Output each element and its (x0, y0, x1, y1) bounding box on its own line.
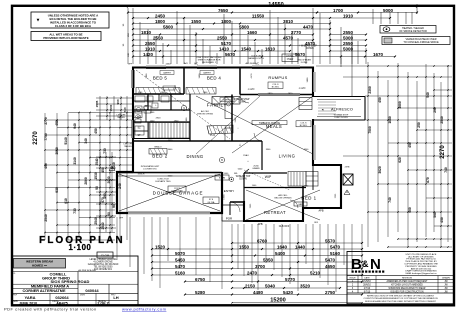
svg-text:730: 730 (73, 208, 77, 214)
svg-text:5210: 5210 (310, 270, 321, 275)
svg-text:ENTRY: ENTRY (224, 189, 234, 193)
svg-text:REPRODUCTION OF THE WHOLE OR P: REPRODUCTION OF THE WHOLE OR PART OF THE… (367, 294, 435, 297)
svg-text:2450: 2450 (155, 13, 166, 18)
svg-text:90: 90 (112, 204, 116, 208)
svg-text:3810: 3810 (283, 19, 294, 24)
svg-text:FAX 08 9282 001: FAX 08 9282 001 (94, 268, 112, 271)
svg-text:5470: 5470 (175, 264, 186, 269)
svg-text:450: 450 (378, 97, 382, 103)
svg-text:KIT: KIT (210, 133, 216, 137)
svg-text:2470: 2470 (247, 270, 258, 275)
svg-text:SWICH: SWICH (138, 174, 145, 176)
svg-text:1440: 1440 (295, 244, 306, 249)
svg-text:610: 610 (64, 198, 68, 204)
svg-text:AMENDED AS PER CLIENT REQUEST: AMENDED AS PER CLIENT REQUEST (387, 280, 429, 283)
svg-text:560: 560 (433, 212, 437, 218)
svg-text:EMAIL bndesigns@bigpond.net.a: EMAIL bndesigns@bigpond.net.au (406, 272, 437, 275)
svg-text:2460: 2460 (166, 64, 172, 66)
svg-text:1670: 1670 (373, 52, 384, 57)
svg-text:2 OF 7: 2 OF 7 (97, 301, 108, 305)
svg-text:⤒ W BEAM STEP: ⤒ W BEAM STEP (299, 45, 317, 48)
svg-text:N: N (370, 256, 381, 273)
svg-text:BED 2: BED 2 (152, 154, 168, 159)
svg-text:2550: 2550 (153, 35, 164, 40)
svg-text:7650: 7650 (218, 8, 229, 13)
svg-text:CORNER ALTERNATME: CORNER ALTERNATME (23, 289, 66, 293)
svg-text:⊙ A/O: ⊙ A/O (248, 88, 255, 91)
svg-text:DATE: DATE (13, 300, 19, 303)
svg-text:APB: APB (257, 223, 262, 226)
svg-text:DOWN: DOWN (301, 62, 308, 64)
svg-text:600: 600 (408, 207, 412, 213)
svg-text:PROVIDED WITH FLOOR WASTE: PROVIDED WITH FLOOR WASTE (43, 36, 88, 40)
svg-text:GBD: GBD (298, 204, 303, 206)
svg-text:SZ: SZ (137, 127, 141, 130)
svg-text:www.pdffactory.com: www.pdffactory.com (122, 306, 167, 311)
svg-text:5420: 5420 (283, 290, 294, 295)
svg-text:4480: 4480 (253, 290, 264, 295)
svg-text:032664: 032664 (55, 295, 69, 300)
svg-text:BRACO: BRACO (154, 146, 162, 149)
svg-text:A/C: A/C (194, 63, 198, 66)
svg-text:11550: 11550 (252, 13, 265, 18)
svg-text:W BEAM TOP: W BEAM TOP (236, 175, 251, 178)
svg-text:BELOW OPENGS: BELOW OPENGS (275, 198, 293, 200)
svg-text:2770: 2770 (291, 30, 302, 35)
svg-text:1410: 1410 (219, 46, 230, 51)
svg-text:COL S: COL S (272, 84, 279, 86)
svg-text:2540: 2540 (94, 217, 98, 225)
svg-text:2770: 2770 (44, 117, 48, 125)
svg-text:450: 450 (101, 167, 105, 173)
svg-text:2540: 2540 (440, 116, 444, 124)
svg-text:5450: 5450 (175, 257, 186, 262)
svg-text:1910: 1910 (145, 46, 156, 51)
svg-text:2540: 2540 (101, 222, 105, 229)
svg-text:CARPET: CARPET (203, 72, 212, 75)
svg-text:90: 90 (107, 212, 111, 216)
svg-text:◄: ◄ (321, 108, 324, 112)
svg-text:8.5MM: 8.5MM (219, 178, 226, 180)
svg-text:DOWN TIES: DOWN TIES (171, 191, 183, 193)
svg-text:1540: 1540 (241, 46, 252, 51)
svg-text:450: 450 (408, 142, 412, 148)
svg-text:5400: 5400 (275, 251, 286, 256)
svg-text:740: 740 (444, 167, 448, 173)
svg-text:→ W BEAM STEP: → W BEAM STEP (231, 98, 250, 101)
svg-text:21/6/10: 21/6/10 (363, 281, 371, 283)
svg-text:OFF: OFF (119, 218, 124, 220)
svg-text:7500: 7500 (368, 126, 372, 134)
svg-text:OFF: OFF (128, 64, 133, 66)
svg-text:YARA: YARA (25, 295, 36, 300)
svg-text:DATE: DATE (364, 277, 370, 280)
svg-text:5280: 5280 (195, 290, 206, 295)
svg-text:1810: 1810 (141, 30, 152, 35)
svg-text:5570: 5570 (295, 52, 306, 57)
svg-text:040044: 040044 (85, 288, 99, 293)
svg-text:450: 450 (94, 128, 98, 134)
svg-text:TABLES: TABLES (117, 116, 125, 119)
svg-text:OVER: OVER (287, 59, 294, 61)
svg-text:1550: 1550 (239, 244, 250, 249)
svg-text:MODULES AND MUST NOT BE USED W: MODULES AND MUST NOT BE USED WITHOUT WRI… (365, 300, 436, 303)
svg-text:A/C: A/C (255, 63, 259, 66)
svg-text:BED 5: BED 5 (153, 76, 167, 81)
svg-text:1500: 1500 (109, 104, 113, 111)
svg-text:237B: 237B (345, 167, 350, 169)
svg-text:450: 450 (55, 120, 59, 126)
svg-text:FAMILY: FAMILY (207, 103, 228, 108)
svg-text:ALFRESCO: ALFRESCO (331, 108, 353, 112)
svg-text:2150: 2150 (245, 283, 256, 288)
svg-text:7750: 7750 (44, 133, 48, 141)
svg-text:LIVING: LIVING (279, 154, 296, 159)
svg-text:INTEGRATED HWT: INTEGRATED HWT (141, 165, 160, 168)
svg-text:ISSUED FOR CONSTRUCTION: ISSUED FOR CONSTRUCTION (390, 291, 424, 293)
svg-text:CLASS 2 OF 3 OF BE BCA: CLASS 2 OF 3 OF BE BCA (55, 24, 92, 28)
svg-text:2270: 2270 (33, 131, 39, 145)
svg-text:A/O DUB: A/O DUB (246, 62, 256, 65)
svg-text:5770: 5770 (285, 277, 296, 282)
svg-text:3600: 3600 (398, 101, 402, 109)
svg-text:DRAWN: DRAWN (442, 277, 450, 280)
svg-text:MEMIFIELD FARM A: MEMIFIELD FARM A (31, 284, 69, 289)
svg-text:930: 930 (55, 187, 59, 193)
svg-text:BC BOL: BC BOL (300, 125, 308, 127)
svg-text:3700: 3700 (255, 264, 266, 269)
svg-text:1520: 1520 (155, 244, 166, 249)
svg-text:2900: 2900 (156, 118, 162, 120)
svg-text:2/7/10: 2/7/10 (364, 288, 371, 290)
svg-text:290: 290 (433, 107, 437, 113)
svg-text:2540: 2540 (95, 158, 99, 165)
svg-text:3050: 3050 (55, 147, 59, 155)
svg-text:1800: 1800 (155, 19, 166, 24)
svg-text:870: 870 (426, 177, 430, 183)
svg-text:2000: 2000 (84, 177, 88, 185)
svg-text:5040: 5040 (265, 283, 276, 288)
svg-text:GRAND: GRAND (252, 167, 260, 170)
svg-text:60 DIA: 60 DIA (208, 201, 215, 204)
svg-text:2000: 2000 (107, 176, 111, 183)
svg-text:BC BOL: BC BOL (272, 87, 280, 89)
svg-text:RETREAT: RETREAT (264, 210, 286, 215)
svg-text:240: 240 (118, 183, 122, 189)
svg-text:TABLES: TABLES (124, 145, 132, 148)
svg-text:CONSTITUTES AN INFRINGEMENT OF: CONSTITUTES AN INFRINGEMENT OF COPYRIGHT… (363, 297, 438, 300)
svg-text:5800: 5800 (163, 24, 174, 29)
svg-text:1660: 1660 (247, 30, 258, 35)
svg-text:POR: POR (226, 217, 232, 221)
svg-text:9/7/10: 9/7/10 (364, 291, 371, 293)
svg-text:4650: 4650 (325, 264, 336, 269)
svg-text:TO CONCEAL FRIDGE SPACE: TO CONCEAL FRIDGE SPACE (403, 41, 439, 44)
svg-text:ELEVATN TIES: ELEVATN TIES (155, 180, 171, 183)
svg-text:1505: 1505 (95, 100, 99, 107)
svg-text:ST: ST (137, 134, 141, 137)
svg-text:490: 490 (44, 163, 48, 169)
svg-text:5570: 5570 (325, 238, 336, 243)
svg-text:REVISION: REVISION (402, 278, 412, 280)
svg-text:730: 730 (103, 148, 107, 154)
svg-text:▾: ▾ (37, 18, 40, 24)
svg-text:OF SMOKE DETECTOR: OF SMOKE DETECTOR (399, 30, 427, 33)
svg-text:RUMPUS: RUMPUS (268, 75, 287, 80)
svg-text:HOMES ▪▪▪: HOMES ▪▪▪ (32, 263, 47, 267)
svg-text:2540: 2540 (44, 214, 48, 222)
svg-text:4470: 4470 (303, 24, 314, 29)
svg-text:1800: 1800 (221, 19, 232, 24)
svg-text:540: 540 (426, 92, 430, 98)
svg-text:LOUVER SYD: LOUVER SYD (143, 169, 157, 171)
svg-text:APB: APB (318, 210, 323, 213)
svg-text:PDF created with pdfFactory tr: PDF created with pdfFactory trial versio… (4, 306, 97, 311)
svg-text:1640: 1640 (277, 244, 288, 249)
svg-text:2360: 2360 (368, 86, 372, 94)
svg-text:DWG: DWG (80, 295, 85, 297)
svg-text:3620: 3620 (378, 166, 382, 174)
svg-text:LINTEL: LINTEL (286, 56, 295, 58)
svg-text:620: 620 (398, 157, 402, 163)
svg-text:BED 1: BED 1 (301, 196, 316, 201)
svg-text:2750: 2750 (325, 290, 336, 295)
svg-text:3520: 3520 (300, 283, 311, 288)
svg-text:28/6/10: 28/6/10 (363, 285, 371, 287)
svg-text:90: 90 (95, 186, 99, 190)
svg-text:AO CEO: AO CEO (201, 110, 209, 113)
svg-text:JUNE 2010: JUNE 2010 (19, 301, 37, 305)
svg-text:5800: 5800 (239, 24, 250, 29)
svg-text:LH: LH (113, 295, 118, 300)
svg-text:740: 740 (388, 197, 392, 203)
svg-text:5170: 5170 (221, 41, 232, 46)
svg-text:6750: 6750 (195, 277, 206, 282)
svg-text:DVAO: DVAO (243, 154, 249, 157)
svg-text:ISSUE: ISSUE (349, 278, 356, 280)
svg-text:900: 900 (116, 99, 120, 104)
svg-text:5470: 5470 (330, 244, 341, 249)
svg-text:250: 250 (417, 122, 421, 128)
svg-text:⊙ A/O: ⊙ A/O (299, 87, 306, 90)
svg-text:DOWN: DOWN (238, 102, 246, 104)
svg-text:5070: 5070 (175, 251, 186, 256)
svg-text:340: 340 (84, 138, 88, 144)
svg-text:DOWN: DOWN (306, 48, 314, 50)
svg-text:740: 740 (123, 107, 127, 112)
svg-text:1530: 1530 (94, 172, 98, 180)
svg-text:THROW OPENG: THROW OPENG (197, 114, 213, 116)
svg-text:WIP: WIP (265, 175, 272, 179)
svg-text:OFF: OFF (314, 222, 319, 224)
svg-text:DINING: DINING (186, 154, 203, 159)
svg-text:GALLERIA HILL ON WA 6010: GALLERIA HILL ON WA 6010 (88, 263, 119, 266)
svg-text:WINDOWS RELOCATED TO REAR: WINDOWS RELOCATED TO REAR (389, 287, 426, 290)
svg-text:1610: 1610 (265, 46, 276, 51)
svg-text:5670: 5670 (225, 52, 236, 57)
svg-text:1·100: 1·100 (69, 243, 92, 252)
svg-text:BED 4: BED 4 (207, 75, 221, 80)
svg-text:A/O: A/O (184, 62, 188, 65)
svg-text:1700: 1700 (333, 8, 344, 13)
svg-text:KITCHEN LAYOUT AMENDED: KITCHEN LAYOUT AMENDED (391, 284, 423, 287)
svg-text:DUBO DOWN: DUBO DOWN (334, 117, 348, 119)
svg-text:&: & (362, 259, 369, 269)
svg-text:5350: 5350 (263, 257, 274, 262)
svg-text:670: 670 (101, 197, 105, 203)
svg-text:1420: 1420 (143, 52, 154, 57)
svg-text:940: 940 (73, 123, 77, 129)
svg-text:CLB OFF: CLB OFF (279, 225, 290, 228)
svg-text:3140: 3140 (73, 157, 77, 165)
svg-text:CARPET: CARPET (163, 72, 172, 75)
svg-text:TIMBER FLOORING: TIMBER FLOORING (259, 123, 281, 125)
svg-text:2550: 2550 (217, 35, 228, 40)
svg-text:5160: 5160 (175, 270, 186, 275)
svg-text:B: B (351, 256, 362, 273)
svg-text:1550: 1550 (191, 19, 202, 24)
svg-text:13000: 13000 (224, 193, 226, 199)
svg-text:2550: 2550 (145, 41, 156, 46)
svg-text:1080: 1080 (388, 116, 392, 124)
svg-text:14550: 14550 (268, 2, 284, 8)
svg-text:450: 450 (440, 217, 444, 223)
svg-text:5140: 5140 (64, 137, 68, 145)
svg-text:RAISED FOOTG: RAISED FOOTG (248, 57, 264, 60)
svg-text:5160: 5160 (330, 251, 341, 256)
svg-text:5470: 5470 (325, 257, 336, 262)
svg-text:1910: 1910 (343, 13, 354, 18)
svg-text:REVERSED 1: REVERSED 1 (202, 62, 217, 64)
svg-text:5000: 5000 (383, 8, 394, 13)
svg-text:AB475: AB475 (56, 301, 67, 305)
svg-text:DOWN: DOWN (239, 179, 247, 181)
